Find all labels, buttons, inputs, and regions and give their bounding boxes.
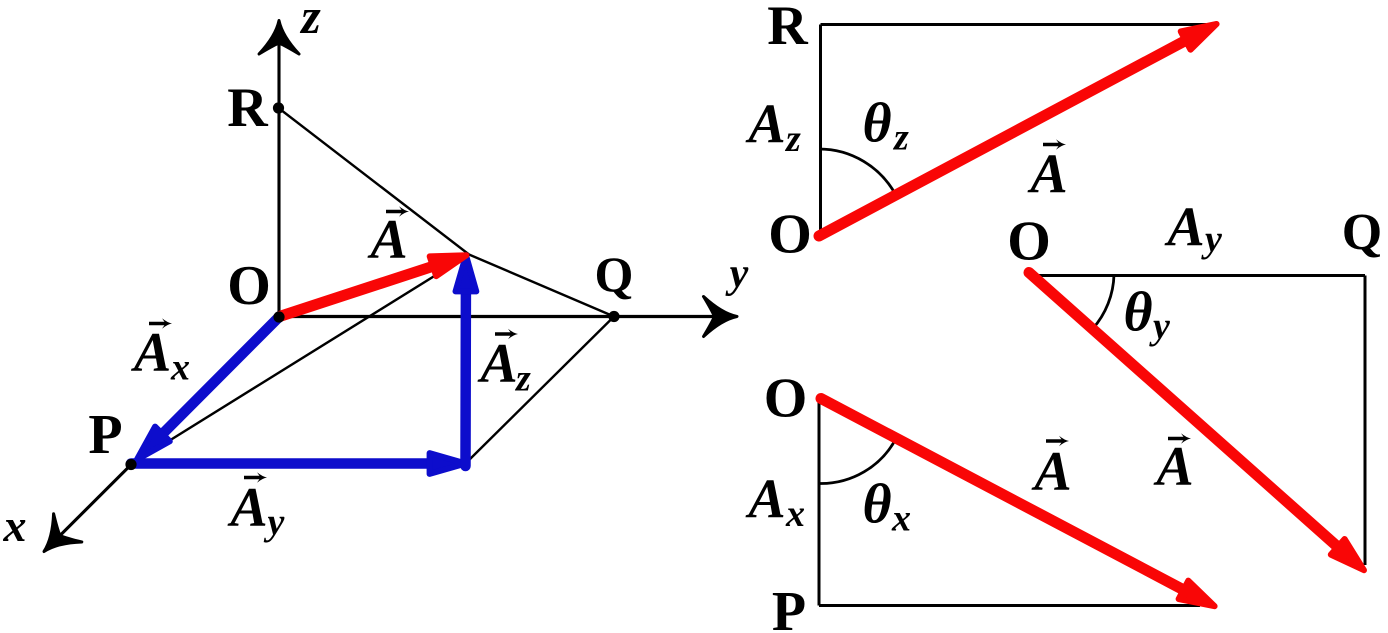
svg-text:O: O [764,368,808,430]
line S to Q [466,317,615,464]
angle arc theta_z [819,149,896,195]
label theta_y [1123,282,1170,348]
vector Ax blue [137,318,278,460]
vector A red z-triangle [819,24,1217,236]
label vector A label (triangle y) [1153,433,1193,498]
svg-text:z: z [299,0,321,44]
vector Az blue [456,255,477,466]
angle arc theta_y [1093,275,1115,330]
triangle y: right side Q down [1364,276,1367,566]
svg-text:A: A [477,333,517,395]
z-axis [259,21,299,318]
svg-text:z: z [892,117,909,159]
svg-text:A: A [131,322,171,384]
line R to tip of A [279,108,470,255]
svg-text:A: A [1031,441,1071,503]
label Az (triangle z) [745,94,801,161]
svg-text:O: O [227,255,271,317]
triangle z: top side R to tip [821,23,1207,26]
label Ax (triangle x) [745,469,805,536]
svg-text:z: z [514,358,531,400]
svg-text:A: A [1164,197,1204,259]
svg-text:A: A [1153,436,1193,498]
svg-text:O: O [768,204,812,266]
svg-text:Q: Q [595,246,634,302]
label vector Ax label [131,318,190,388]
svg-text:A: A [745,94,785,156]
svg-text:O: O [1007,211,1051,273]
vector A red [281,255,466,316]
svg-text:R: R [227,77,268,139]
svg-text:θ: θ [1123,282,1152,344]
dot Q [608,311,619,322]
label theta_z [862,93,909,159]
triangle z: side OR vertical [819,25,822,237]
svg-text:z: z [784,118,801,160]
svg-text:A: A [227,477,267,539]
label vector A label (triangle z) [1027,139,1067,205]
svg-text:A: A [1027,144,1067,206]
dot R [273,102,284,113]
y-axis [279,297,737,337]
svg-text:θ: θ [862,474,891,536]
svg-text:x: x [3,500,27,551]
label theta_x [862,474,911,540]
svg-text:x: x [785,493,805,535]
line tip of A to Q [469,255,614,317]
label vector A label [367,206,409,271]
svg-text:A: A [367,209,407,271]
svg-text:P: P [88,404,122,466]
triangle x: bottom side P to tip [819,604,1200,607]
vector A red x-triangle [821,399,1215,607]
svg-text:x: x [170,347,190,389]
svg-text:R: R [767,0,808,57]
svg-text:y: y [264,502,285,544]
svg-text:y: y [725,251,749,297]
label vector Ay label [227,472,284,543]
svg-text:y: y [1201,219,1222,261]
svg-text:A: A [745,469,785,531]
triangle x: side OP vertical [818,399,821,606]
label vector A label (triangle x) [1031,436,1071,503]
triangle y: top side O to Q [1030,274,1365,277]
vector A red y-triangle [1029,273,1364,571]
dot P [125,459,136,470]
svg-text:θ: θ [862,93,891,155]
angle arc theta_x [819,438,896,483]
svg-text:x: x [891,498,911,540]
svg-text:Q: Q [1342,204,1382,261]
svg-text:P: P [772,581,806,633]
svg-text:y: y [1149,306,1170,348]
label Ay (triangle y) [1164,197,1222,261]
line P to tip of A [131,255,469,465]
x-axis [44,317,279,552]
vector Ay blue [131,453,466,474]
dot O [273,311,284,322]
label vector Az label [477,329,531,400]
